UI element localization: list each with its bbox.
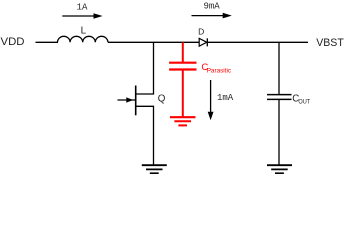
current arrow 1mA bbox=[208, 80, 214, 120]
ground under Cout bbox=[267, 165, 292, 173]
svg-text:VBST: VBST bbox=[316, 37, 344, 49]
svg-text:9mA: 9mA bbox=[204, 2, 221, 12]
transistor Q bbox=[118, 86, 136, 116]
ground under Q bbox=[142, 165, 167, 173]
current arrow 9mA bbox=[192, 13, 232, 19]
current arrow 1A bbox=[62, 13, 102, 19]
svg-text:VDD: VDD bbox=[1, 36, 25, 48]
capacitor Cparasitic (red) bbox=[169, 42, 196, 117]
svg-text:Parasitic: Parasitic bbox=[207, 68, 232, 75]
diode D bbox=[199, 38, 207, 46]
svg-text:L: L bbox=[81, 26, 87, 37]
svg-text:1mA: 1mA bbox=[217, 93, 234, 103]
wire VDD to inductor bbox=[36, 41, 59, 43]
svg-text:Q: Q bbox=[158, 93, 166, 104]
wire Cout to ground bbox=[278, 99, 280, 165]
capacitor Cout bbox=[267, 95, 292, 100]
label Cout bbox=[292, 94, 310, 106]
wire diode to VBST bbox=[207, 41, 308, 43]
wire transistor source to ground bbox=[136, 106, 154, 165]
label Cparasitic bbox=[201, 62, 231, 75]
inductor L bbox=[58, 36, 108, 42]
ground red (parasitic) bbox=[170, 117, 196, 125]
svg-text:1A: 1A bbox=[77, 2, 88, 12]
wire node to transistor drain bbox=[136, 42, 154, 94]
svg-text:OUT: OUT bbox=[298, 98, 310, 105]
svg-text:D: D bbox=[198, 26, 204, 36]
wire node to Cout bbox=[278, 42, 280, 94]
wire inductor to diode bbox=[108, 41, 199, 43]
